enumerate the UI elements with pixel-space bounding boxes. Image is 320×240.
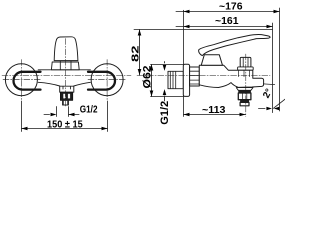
front view: left escutcheon circle xyxy=(5,64,37,96)
diverter housing lines xyxy=(239,71,250,77)
G1/2 front: dimension line + arrows xyxy=(44,114,50,116)
handle dome (front) xyxy=(54,37,78,61)
aerator ring band 2 xyxy=(240,100,249,103)
150 dimension line xyxy=(22,128,108,130)
hose nut (front) xyxy=(60,92,72,100)
150 dimension extension lines xyxy=(21,101,23,132)
~176 dimension xyxy=(176,11,280,13)
centerline side body axis xyxy=(137,75,270,77)
front view: right escutcheon circle xyxy=(91,64,123,96)
handle collar (front) xyxy=(51,62,79,70)
aerator ring band 1 xyxy=(238,90,251,93)
aerator ring light 2 xyxy=(240,102,249,105)
centerline horizontal body axis front xyxy=(2,75,131,77)
82 top extension line xyxy=(134,29,273,31)
lever handle (side) xyxy=(199,34,270,55)
escutcheon disc (side) xyxy=(183,64,189,96)
left union C-shape xyxy=(14,72,41,90)
svg-text:G1/2: G1/2 xyxy=(159,101,171,125)
O62 extension lines xyxy=(151,64,184,66)
svg-text:G1/2: G1/2 xyxy=(80,105,98,116)
aerator / shower outlet (side): throat xyxy=(236,88,253,91)
centerline vertical through handle xyxy=(64,39,66,107)
centerline vertical right circle xyxy=(106,60,108,102)
aerator ring light 1 xyxy=(238,93,251,100)
svg-text:~161: ~161 xyxy=(215,16,239,27)
svg-text:82: 82 xyxy=(130,45,141,62)
svg-text:~176: ~176 xyxy=(219,1,243,12)
centerline horizontal through circles xyxy=(3,79,41,81)
right union C-shape xyxy=(88,72,115,90)
~161 dimension xyxy=(176,26,273,28)
thread tail into wall xyxy=(168,71,183,88)
outlet boss xyxy=(60,86,74,92)
union nut (side) xyxy=(190,67,200,86)
O62 dimension line xyxy=(151,65,153,97)
centerline vertical left circle xyxy=(20,60,22,102)
G1/2 front: extension ticks xyxy=(57,107,69,117)
side body + spout xyxy=(199,65,263,87)
82 dimension line xyxy=(139,30,141,76)
G1/2 side dimension arrows xyxy=(164,62,166,64)
diverter knob (side) xyxy=(240,57,251,67)
cartridge collar (side) xyxy=(201,55,222,66)
svg-text:150 ± 15: 150 ± 15 xyxy=(47,120,83,131)
2 deg angle dimension xyxy=(263,83,274,86)
front body bottom edge with saddle xyxy=(38,82,90,86)
svg-text:Ø62: Ø62 xyxy=(141,66,153,89)
front body top edge xyxy=(38,69,90,71)
wall extension line xyxy=(183,10,185,116)
svg-text:~113: ~113 xyxy=(202,105,226,116)
centerline vertical through knob/aerator xyxy=(245,54,247,117)
outlet tailpiece (front) xyxy=(63,100,69,105)
~113 dimension xyxy=(184,114,246,116)
